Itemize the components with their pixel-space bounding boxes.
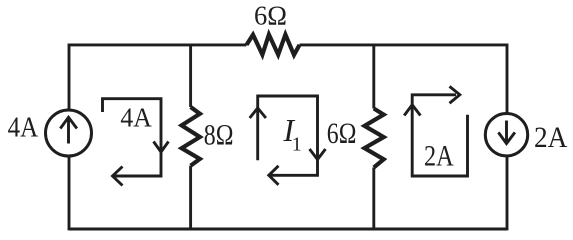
- wire left branch lower: [68, 156, 71, 230]
- mesh loop 4A left chevron: [113, 167, 123, 186]
- svg-text:4A: 4A: [120, 102, 152, 133]
- wire right branch lower: [506, 156, 509, 230]
- mesh loop arrow 4A: [103, 99, 162, 176]
- svg-text:8Ω: 8Ω: [204, 119, 234, 151]
- resistor 6ohm top zigzag: [247, 35, 300, 55]
- mesh loop I1 up chevron: [250, 108, 266, 118]
- current source I2A circle: [485, 114, 527, 156]
- mesh loop 2A right chevron: [450, 86, 460, 103]
- wire bottom: [69, 228, 507, 231]
- svg-text:2A: 2A: [534, 121, 568, 154]
- resistor 8ohm zigzag: [182, 107, 200, 166]
- wire left branch upper: [68, 44, 71, 111]
- svg-text:6Ω: 6Ω: [254, 1, 287, 31]
- mesh loop I1 left chevron: [269, 166, 279, 185]
- mesh loop I1 down chevron: [310, 149, 326, 160]
- wire right branch upper: [506, 44, 509, 114]
- current source I4A circle: [46, 110, 92, 156]
- wire branch3 lower: [372, 168, 375, 230]
- current source I4A arrow: [60, 117, 77, 143]
- mesh loop 2A up chevron: [404, 105, 420, 116]
- svg-text:6Ω: 6Ω: [327, 118, 357, 150]
- resistor 6ohm middle zigzag: [365, 109, 384, 168]
- wire branch2 lower: [189, 166, 192, 229]
- svg-text:2A: 2A: [424, 139, 454, 172]
- wire branch2 upper: [189, 45, 192, 107]
- wire branch3 upper: [372, 45, 375, 109]
- svg-text:1: 1: [292, 134, 302, 156]
- current source I2A arrow: [498, 121, 515, 144]
- mesh loop arrow I1: [258, 96, 318, 175]
- wire top-right segment: [300, 43, 508, 46]
- mesh loop arrow 2A: [412, 95, 467, 176]
- svg-text:4A: 4A: [8, 112, 39, 143]
- mesh loop 4A down chevron: [154, 142, 169, 153]
- wire top-left segment: [69, 43, 247, 46]
